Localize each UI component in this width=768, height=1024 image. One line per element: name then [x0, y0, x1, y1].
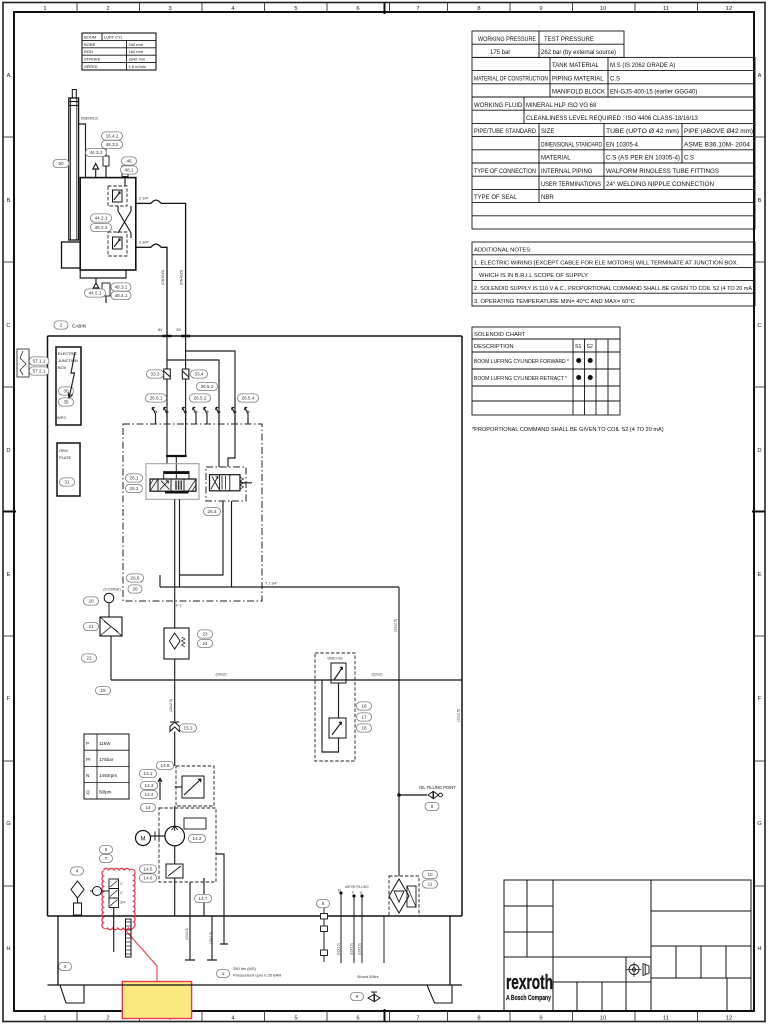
svg-text:WPS: WPS [57, 415, 66, 420]
tank bottom [48, 984, 463, 986]
pump circle [165, 826, 185, 846]
oil fill symbol [428, 792, 439, 799]
svg-text:SOLENOID CHART: SOLENOID CHART [474, 332, 526, 338]
svg-text:DIMENSIONAL STANDARD: DIMENSIONAL STANDARD [541, 142, 603, 148]
pipe B to manifold [136, 246, 151, 248]
svg-text:H: H [6, 946, 10, 952]
manifold dash-dot boundary [123, 424, 262, 601]
gauge main line [111, 679, 462, 681]
svg-text:C: C [6, 323, 10, 329]
arrow next to 14.1 [158, 778, 162, 800]
callout 2 cabin [54, 321, 68, 329]
svg-text:20: 20 [88, 599, 94, 604]
check valve 33.4 [182, 369, 189, 379]
svg-text:23: 23 [202, 632, 208, 637]
level switch chain [323, 908, 325, 962]
svg-text:M: M [338, 889, 341, 893]
wire [166, 336, 168, 369]
svg-text:26.6: 26.6 [131, 576, 140, 581]
lightning arrow [68, 352, 75, 398]
svg-text:44.2.1: 44.2.1 [95, 216, 108, 221]
svg-text:N: N [86, 773, 89, 778]
coupling box [184, 818, 206, 829]
temp gauge [93, 887, 102, 896]
callout 14.1 [140, 769, 157, 777]
svg-text:35: 35 [63, 400, 69, 405]
svg-text:48.1: 48.1 [125, 168, 134, 173]
svg-text:PLATE: PLATE [59, 455, 71, 460]
suction butterfly valve [182, 776, 204, 798]
svg-text:(12x1.5): (12x1.5) [337, 943, 341, 955]
callout 26.5.1 [146, 394, 167, 402]
callout 26.2 [126, 484, 143, 492]
svg-text:NBR: NBR [541, 195, 554, 201]
svg-text:17: 17 [361, 715, 367, 720]
callout 14.5 [140, 865, 157, 873]
tank foot left [60, 985, 84, 1003]
callout 14.2 [189, 834, 206, 842]
svg-text:(28x2.5): (28x2.5) [169, 699, 173, 712]
wire [185, 336, 187, 369]
svg-text:A Bosch Company: A Bosch Company [506, 995, 551, 1002]
drain elbow from pump box [216, 854, 224, 916]
wire with jog [185, 424, 187, 456]
svg-text:INTERNAL PIPING: INTERNAL PIPING [541, 169, 593, 175]
svg-text:TEST PRESSURE: TEST PRESSURE [544, 37, 594, 43]
svg-text:9: 9 [356, 994, 359, 999]
svg-text:7: 7 [416, 1016, 419, 1022]
svg-text:250 ltrs (MS): 250 ltrs (MS) [233, 966, 257, 971]
svg-text:(20x2): (20x2) [215, 672, 227, 677]
svg-text:C.S: C.S [684, 156, 694, 162]
svg-text:Pressurised upto 0.35 BAR: Pressurised upto 0.35 BAR [233, 973, 281, 978]
svg-text:7: 7 [416, 6, 419, 12]
svg-text:14.8: 14.8 [161, 763, 170, 768]
svg-text:(DN40x5): (DN40x5) [161, 270, 165, 285]
additional notes table [472, 242, 755, 306]
callout 14 [141, 803, 156, 811]
red revision cloud [102, 868, 135, 929]
svg-text:3: 3 [168, 6, 171, 12]
boom cylinder rod [72, 90, 76, 99]
svg-text:(20x1.5): (20x1.5) [185, 928, 189, 940]
relief valve upper [331, 663, 346, 683]
wire [77, 898, 79, 903]
svg-text:8: 8 [431, 804, 434, 809]
projection symbol [629, 965, 639, 975]
svg-text:VBSO-SE: VBSO-SE [327, 657, 343, 661]
pipe A to manifold [136, 202, 151, 204]
bulkhead tick [181, 335, 190, 338]
callout 44.2.1 [91, 214, 112, 222]
svg-text:24: 24 [202, 641, 208, 646]
tank arrow symbol [93, 164, 99, 178]
svg-text:1: 1 [222, 971, 225, 976]
svg-text:MANIFOLD BLOCK: MANIFOLD BLOCK [552, 90, 605, 96]
svg-text:WALFORM RINGLESS TUBE FITTINGS: WALFORM RINGLESS TUBE FITTINGS [606, 169, 719, 175]
prop valve pilot caps [164, 471, 189, 479]
svg-text:48.4.1: 48.4.1 [115, 293, 128, 298]
check valve 33.3 [164, 369, 171, 379]
svg-text:USER TERMINATIONS: USER TERMINATIONS [541, 182, 601, 188]
svg-text:9: 9 [539, 1016, 542, 1022]
svg-text:26.5.2: 26.5.2 [194, 396, 207, 401]
callout 18 [357, 724, 372, 732]
electric junction box [56, 347, 81, 425]
svg-text:175bar: 175bar [99, 757, 114, 762]
svg-text:C.S (AS PER EN 10305-4): C.S (AS PER EN 10305-4) [606, 156, 680, 162]
callout 26.5.3 [197, 382, 218, 390]
callout 21 [84, 622, 99, 630]
wire stub [159, 575, 161, 587]
wire [338, 683, 340, 718]
P line [174, 659, 176, 721]
top ruler ticks [76, 3, 78, 13]
filter above valve A [122, 166, 128, 177]
callout 45.2.2 [91, 223, 112, 231]
svg-text:M.S (IS 2062 GRADE A): M.S (IS 2062 GRADE A) [610, 63, 675, 69]
svg-text:Ø180/Ø110: Ø180/Ø110 [81, 117, 98, 121]
svg-text:BOX: BOX [58, 365, 67, 370]
svg-text:EN-GJS-400-15 (earlier GGG40): EN-GJS-400-15 (earlier GGG40) [610, 90, 697, 96]
suction pipes in tank [185, 916, 195, 960]
svg-text:14.5: 14.5 [144, 867, 153, 872]
wire [166, 379, 168, 424]
callout 3 [59, 962, 72, 970]
svg-text:19: 19 [100, 688, 106, 693]
T return drop line [398, 587, 400, 876]
svg-text:7: 7 [105, 856, 108, 861]
svg-text:TYPE OF SEAL: TYPE OF SEAL [474, 195, 517, 201]
electric motor [136, 831, 151, 846]
svg-text:16: 16 [361, 704, 367, 709]
P line from valve [174, 499, 176, 628]
test points on manifold top [152, 408, 155, 425]
svg-text:1: 1 [43, 1016, 46, 1022]
work lines of 26.4 down [180, 501, 224, 575]
wire [105, 296, 107, 303]
svg-text:26.2: 26.2 [130, 486, 139, 491]
bottom ruler ticks [76, 1011, 78, 1022]
svg-text:11kW: 11kW [99, 741, 111, 746]
callout 31 [60, 478, 75, 486]
svg-text:57.2.1: 57.2.1 [33, 369, 46, 374]
svg-text:10: 10 [427, 872, 433, 877]
suction valve dashed box [176, 766, 214, 806]
svg-text:31: 31 [64, 480, 70, 485]
wire with jog [228, 424, 235, 467]
breather diamond [71, 881, 84, 898]
wire [124, 159, 126, 166]
svg-text:26: 26 [132, 587, 138, 592]
svg-text:240 mm: 240 mm [129, 42, 144, 47]
pump dashed box [159, 808, 216, 882]
svg-text:26.1: 26.1 [130, 476, 139, 481]
svg-text:26.5.4: 26.5.4 [242, 396, 255, 401]
svg-text:PIPE/TUBE STANDARD: PIPE/TUBE STANDARD [474, 129, 537, 135]
level gauge 3 [126, 919, 132, 957]
svg-text:44.5.1: 44.5.1 [89, 291, 102, 296]
T line from valve [179, 499, 181, 587]
callout 7 [100, 854, 113, 862]
svg-text:F: F [758, 696, 762, 702]
branch wire [186, 351, 235, 424]
svg-text:AIR RE FILLING: AIR RE FILLING [345, 885, 369, 889]
svg-text:E: E [7, 572, 11, 578]
svg-text:14.6: 14.6 [144, 876, 153, 881]
wire [124, 177, 126, 187]
svg-text:ASME B36.10M- 2004: ASME B36.10M- 2004 [684, 142, 751, 148]
valve 26.4 body [210, 475, 241, 491]
callout 48.3.1 [111, 283, 131, 291]
wire [166, 424, 168, 464]
svg-text:P 1": P 1" [176, 604, 183, 608]
svg-text:2: 2 [106, 6, 109, 12]
svg-text:BV: BV [158, 328, 163, 332]
svg-text:TANK MATERIAL: TANK MATERIAL [552, 63, 599, 69]
test lines [340, 893, 342, 963]
callout 14.3 [141, 781, 158, 789]
svg-text:(10x1.5): (10x1.5) [358, 943, 362, 955]
callout 48 [122, 157, 137, 165]
svg-text:A: A [7, 73, 11, 79]
svg-text:4: 4 [76, 869, 79, 874]
svg-text:WORKING FLUID: WORKING FLUID [474, 103, 523, 109]
suction into pump [174, 806, 176, 826]
svg-text:2. SOLENOID SUPPLY IS 110 V A.: 2. SOLENOID SUPPLY IS 110 V A.C., PROPOR… [474, 286, 752, 292]
svg-text:D: D [757, 448, 761, 454]
svg-text:ORG: ORG [59, 448, 68, 453]
cylinder data table [82, 33, 156, 70]
shaft [151, 835, 165, 837]
svg-text:50: 50 [58, 161, 64, 166]
svg-text:6: 6 [356, 1016, 359, 1022]
bulkhead tick [163, 335, 172, 338]
svg-text:6: 6 [356, 6, 359, 12]
callout 26.1 [126, 474, 143, 482]
svg-text:48.3.1: 48.3.1 [115, 285, 128, 290]
shut-off valve stack in cloud [109, 879, 119, 889]
svg-text:STROKE: STROKE [84, 57, 101, 62]
svg-text:33.3: 33.3 [151, 372, 160, 377]
svg-text:D: D [6, 448, 10, 454]
svg-text:8: 8 [477, 6, 480, 12]
solenoid hatch right [188, 479, 196, 491]
svg-text:TUBE (UPTO Ø 42 mm): TUBE (UPTO Ø 42 mm) [606, 129, 679, 135]
wire [105, 148, 107, 157]
svg-text:C.S: C.S [610, 76, 620, 82]
cable symbol [17, 349, 29, 377]
drain to tank [174, 878, 176, 916]
svg-text:SPEED: SPEED [84, 64, 98, 69]
drain arrow [93, 278, 99, 288]
cylinder wall line [70, 98, 72, 240]
svg-text:14.7: 14.7 [199, 896, 208, 901]
plate box [57, 443, 80, 496]
svg-text:3342 mm: 3342 mm [129, 57, 146, 62]
pump outlet [174, 846, 176, 864]
spring 26.4 [240, 477, 244, 489]
svg-text:3. OPERATING TEMPERATURE MIN=: 3. OPERATING TEMPERATURE MIN= 40°C AND M… [474, 299, 635, 305]
callout 17 [357, 713, 372, 721]
svg-text:12: 12 [726, 6, 732, 12]
junction dot [397, 793, 401, 797]
svg-text:Pr: Pr [86, 757, 91, 762]
tank wall [57, 916, 59, 985]
spool arrows [160, 481, 169, 490]
valve 45.2.2 lower cartridge [108, 232, 127, 256]
svg-text:G: G [757, 821, 762, 827]
callout 24 [198, 639, 213, 647]
svg-text:E: E [758, 572, 762, 578]
svg-text:3/4": 3/4" [120, 901, 127, 905]
callout 4 [71, 867, 84, 875]
svg-text:5: 5 [294, 6, 297, 12]
return filter triangles [389, 879, 409, 913]
relief valve in pump box [166, 864, 183, 878]
svg-text:1450rpm: 1450rpm [99, 773, 117, 778]
wire [113, 908, 115, 917]
tank wall [449, 916, 451, 985]
callout 48.4.1 [111, 291, 131, 299]
callout 6 [100, 845, 113, 853]
wire [185, 379, 187, 424]
svg-text:160 mm: 160 mm [129, 49, 144, 54]
callout 1 [217, 969, 230, 977]
svg-text:1. ELECTRIC WIRING [EXCEPT CAB: 1. ELECTRIC WIRING [EXCEPT CABLE FOR ELE… [474, 260, 739, 266]
svg-text:21: 21 [88, 624, 94, 629]
callout 11 [423, 880, 438, 888]
right ruler ticks [754, 136, 765, 138]
svg-text:MATERIAL OF CONSTRUCTION: MATERIAL OF CONSTRUCTION [474, 76, 548, 82]
svg-text:DESCRIPTION: DESCRIPTION [474, 344, 514, 350]
svg-text:BOOM LUFFING CYLINDER RETRACT: BOOM LUFFING CYLINDER RETRACT * [474, 376, 568, 382]
svg-text:2: 2 [60, 323, 63, 328]
svg-text:2: 2 [106, 1016, 109, 1022]
wire [105, 166, 107, 178]
callout 35 [59, 398, 74, 406]
svg-text:14.4: 14.4 [145, 792, 154, 797]
prop valve body [150, 479, 196, 491]
title block [504, 880, 751, 1011]
power unit / cabin boundary rectangle [48, 336, 463, 916]
callout 26 [128, 585, 142, 593]
svg-text:TYPE OF CONNECTION: TYPE OF CONNECTION [474, 169, 536, 175]
callout 5 [317, 899, 330, 907]
callout 14.7 [195, 894, 212, 902]
tank foot right [427, 985, 452, 1003]
boom cylinder barrel [69, 98, 79, 240]
return filter dashed box [389, 876, 419, 916]
cylinder port line [79, 124, 86, 178]
callout 14.6 [140, 874, 157, 882]
svg-text:Stored 50ltrs: Stored 50ltrs [357, 975, 379, 979]
svg-text:9: 9 [539, 6, 542, 12]
relief valve lower [329, 718, 346, 738]
svg-text:BV: BV [177, 328, 182, 332]
svg-text:14.2: 14.2 [193, 836, 202, 841]
svg-text:WHICH IS IN B.R.I.L SCOPE OF S: WHICH IS IN B.R.I.L SCOPE OF SUPPLY. [479, 273, 589, 279]
svg-text:S1: S1 [575, 344, 581, 350]
relief valve block dashed boundary [315, 653, 355, 761]
solenoid hatch left [150, 479, 158, 491]
callout 30 [59, 387, 74, 395]
svg-text:ROD: ROD [84, 49, 93, 54]
oil fill line [399, 794, 427, 796]
callout 8 [425, 802, 439, 810]
svg-text:175 bar: 175 bar [490, 50, 510, 56]
svg-text:(12x1.5): (12x1.5) [350, 943, 354, 955]
svg-text:BOOM LUFFING CYLINDER FORWARD: BOOM LUFFING CYLINDER FORWARD * [474, 359, 570, 365]
orifice on valve feed [103, 156, 109, 166]
yellow highlight box [122, 982, 191, 1019]
svg-text:5: 5 [322, 901, 325, 906]
svg-text:262 bar (by external source): 262 bar (by external source) [541, 50, 616, 56]
piston line [69, 101, 79, 103]
svg-text:16.4.2: 16.4.2 [106, 134, 119, 139]
suction line [174, 732, 176, 767]
counterbalance manifold block outline [80, 178, 136, 270]
svg-text:10: 10 [600, 6, 606, 12]
callout 9 [351, 992, 364, 1000]
svg-text:BOOM: BOOM [84, 35, 96, 40]
svg-text:EN 10305-4: EN 10305-4 [606, 142, 639, 148]
callout 26.5.2 [190, 394, 211, 402]
svg-text:WORKING PRESSURE: WORKING PRESSURE [478, 37, 536, 43]
callout 23 [198, 630, 213, 638]
callout 26.4 [204, 507, 221, 515]
callout 44.5.1 [85, 289, 106, 297]
branch wire [167, 360, 219, 424]
svg-text:MATERIAL: MATERIAL [541, 156, 571, 162]
svg-text:PIPE (ABOVE Ø42 mm): PIPE (ABOVE Ø42 mm) [684, 129, 753, 135]
svg-text:8: 8 [477, 1016, 480, 1022]
svg-text:44.3.2: 44.3.2 [90, 150, 103, 155]
svg-text:OIL FILLING POINT: OIL FILLING POINT [419, 785, 456, 790]
svg-text:MINERAL HLP ISO VG 68: MINERAL HLP ISO VG 68 [526, 103, 597, 109]
callout 16.4.2 [102, 132, 123, 140]
svg-text:45.2.2: 45.2.2 [95, 225, 108, 230]
svg-text:BORE: BORE [84, 42, 96, 47]
svg-text:14: 14 [145, 805, 151, 810]
svg-text:1: 1 [43, 6, 46, 12]
wire [218, 424, 220, 467]
svg-text:(0-250bar): (0-250bar) [103, 588, 120, 592]
callout 57.2.1 [29, 367, 49, 375]
callout 48.1 [121, 166, 138, 174]
drain line [203, 878, 205, 916]
svg-text:14.3: 14.3 [145, 783, 154, 788]
wire [110, 636, 112, 680]
svg-text:10: 10 [600, 1016, 606, 1022]
svg-text:6: 6 [105, 847, 108, 852]
callout 10 [423, 870, 438, 878]
svg-text:SIZE: SIZE [541, 129, 554, 135]
callout 20 [84, 597, 99, 605]
callout 19 [96, 686, 111, 694]
svg-text:M: M [141, 837, 146, 843]
svg-text:48: 48 [126, 159, 132, 164]
callout 33.4 [191, 370, 208, 378]
svg-text:CABIN: CABIN [72, 324, 86, 329]
svg-text:CLEANLINESS LEVEL REQUIRED : I: CLEANLINESS LEVEL REQUIRED : ISO 4406 CL… [526, 116, 699, 122]
svg-text:50lpm: 50lpm [99, 789, 112, 794]
drain valve 9 [368, 995, 380, 1002]
svg-text:26.5.3: 26.5.3 [201, 384, 214, 389]
wire [175, 786, 182, 788]
callout 44.3.2 [86, 148, 107, 156]
svg-text:(22x2.5): (22x2.5) [394, 619, 398, 632]
